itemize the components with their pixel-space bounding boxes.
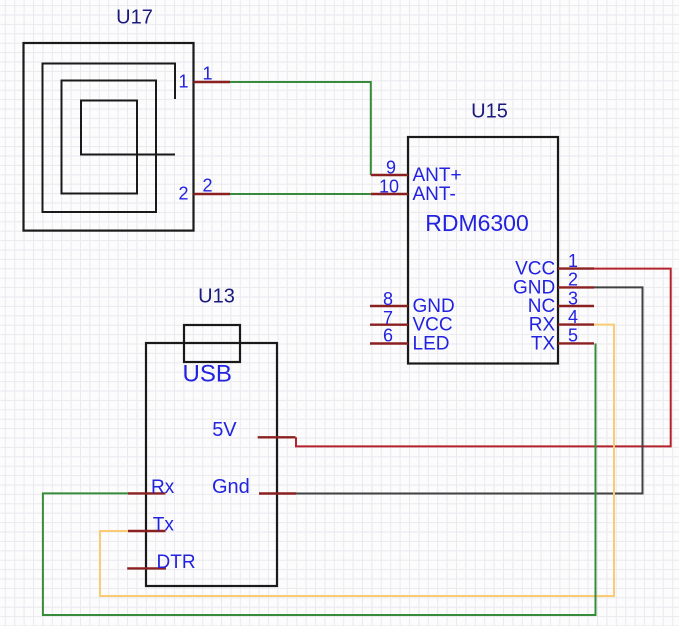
wire net TX-Rx (U15 pin5 to U13 Rx): [43, 343, 596, 615]
U13 pin Tx: [128, 515, 174, 536]
svg-text:U17: U17: [116, 7, 153, 29]
svg-text:USB: USB: [183, 361, 232, 388]
U15 pin 3 NC: [528, 288, 594, 317]
USB U13 connector box: [184, 325, 240, 362]
U13 pin Gnd: [212, 476, 296, 498]
U17 pin 1: [178, 64, 230, 92]
svg-text:10: 10: [379, 176, 399, 196]
U15 pin 5 TX: [531, 326, 594, 355]
svg-text:ANT+: ANT+: [413, 165, 462, 186]
wire net VCC (U15 pin1 to U13 5V): [296, 269, 671, 447]
wire net ANT- (U17 pin2 to U15 pin10): [230, 193, 371, 195]
svg-text:2: 2: [178, 184, 188, 204]
svg-text:DTR: DTR: [157, 552, 196, 573]
svg-text:LED: LED: [413, 334, 450, 355]
U13 pin Rx: [128, 477, 175, 498]
svg-text:1: 1: [568, 251, 578, 271]
svg-text:TX: TX: [531, 333, 556, 354]
svg-text:5: 5: [568, 326, 578, 346]
svg-text:1: 1: [202, 64, 212, 84]
antenna U17 body: [24, 43, 194, 231]
U13 pin DTR: [127, 552, 195, 573]
svg-text:6: 6: [383, 325, 393, 345]
svg-text:U13: U13: [198, 286, 235, 308]
RDM6300 U15 body: [408, 137, 558, 364]
svg-text:Tx: Tx: [153, 515, 175, 536]
svg-text:RDM6300: RDM6300: [425, 210, 529, 236]
U15 pin 1 VCC: [515, 251, 594, 280]
svg-text:5V: 5V: [212, 419, 237, 441]
U15 pin 2 GND: [513, 270, 594, 299]
U15 pin 7 VCC: [370, 308, 453, 336]
svg-text:3: 3: [568, 288, 578, 308]
svg-text:U15: U15: [471, 101, 508, 123]
wire net RX-Tx (U15 pin4 to U13 Tx): [100, 325, 614, 596]
U13 pin 5V: [212, 419, 295, 441]
wire net GND (U15 pin2 to U13 Gnd): [296, 287, 643, 493]
antenna U17 coil: [43, 64, 176, 213]
svg-text:Gnd: Gnd: [212, 476, 250, 498]
svg-text:ANT-: ANT-: [413, 184, 456, 205]
svg-text:1: 1: [178, 72, 188, 92]
svg-text:2: 2: [568, 270, 578, 290]
svg-text:9: 9: [386, 157, 396, 177]
svg-text:Rx: Rx: [151, 477, 175, 498]
U15 pin 9 ANT+: [371, 157, 462, 186]
wire net ANT+ (U17 pin1 to U15 pin9): [230, 82, 371, 175]
svg-text:4: 4: [568, 307, 578, 327]
U15 pin 8 GND: [370, 289, 455, 317]
USB U13 body: [146, 343, 277, 586]
svg-text:8: 8: [383, 289, 393, 309]
U17 pin 2: [178, 176, 230, 204]
U15 pin 4 RX: [529, 307, 594, 336]
U15 pin 10 ANT-: [371, 176, 456, 205]
svg-text:2: 2: [202, 176, 212, 196]
U15 pin 6 LED: [370, 325, 449, 354]
